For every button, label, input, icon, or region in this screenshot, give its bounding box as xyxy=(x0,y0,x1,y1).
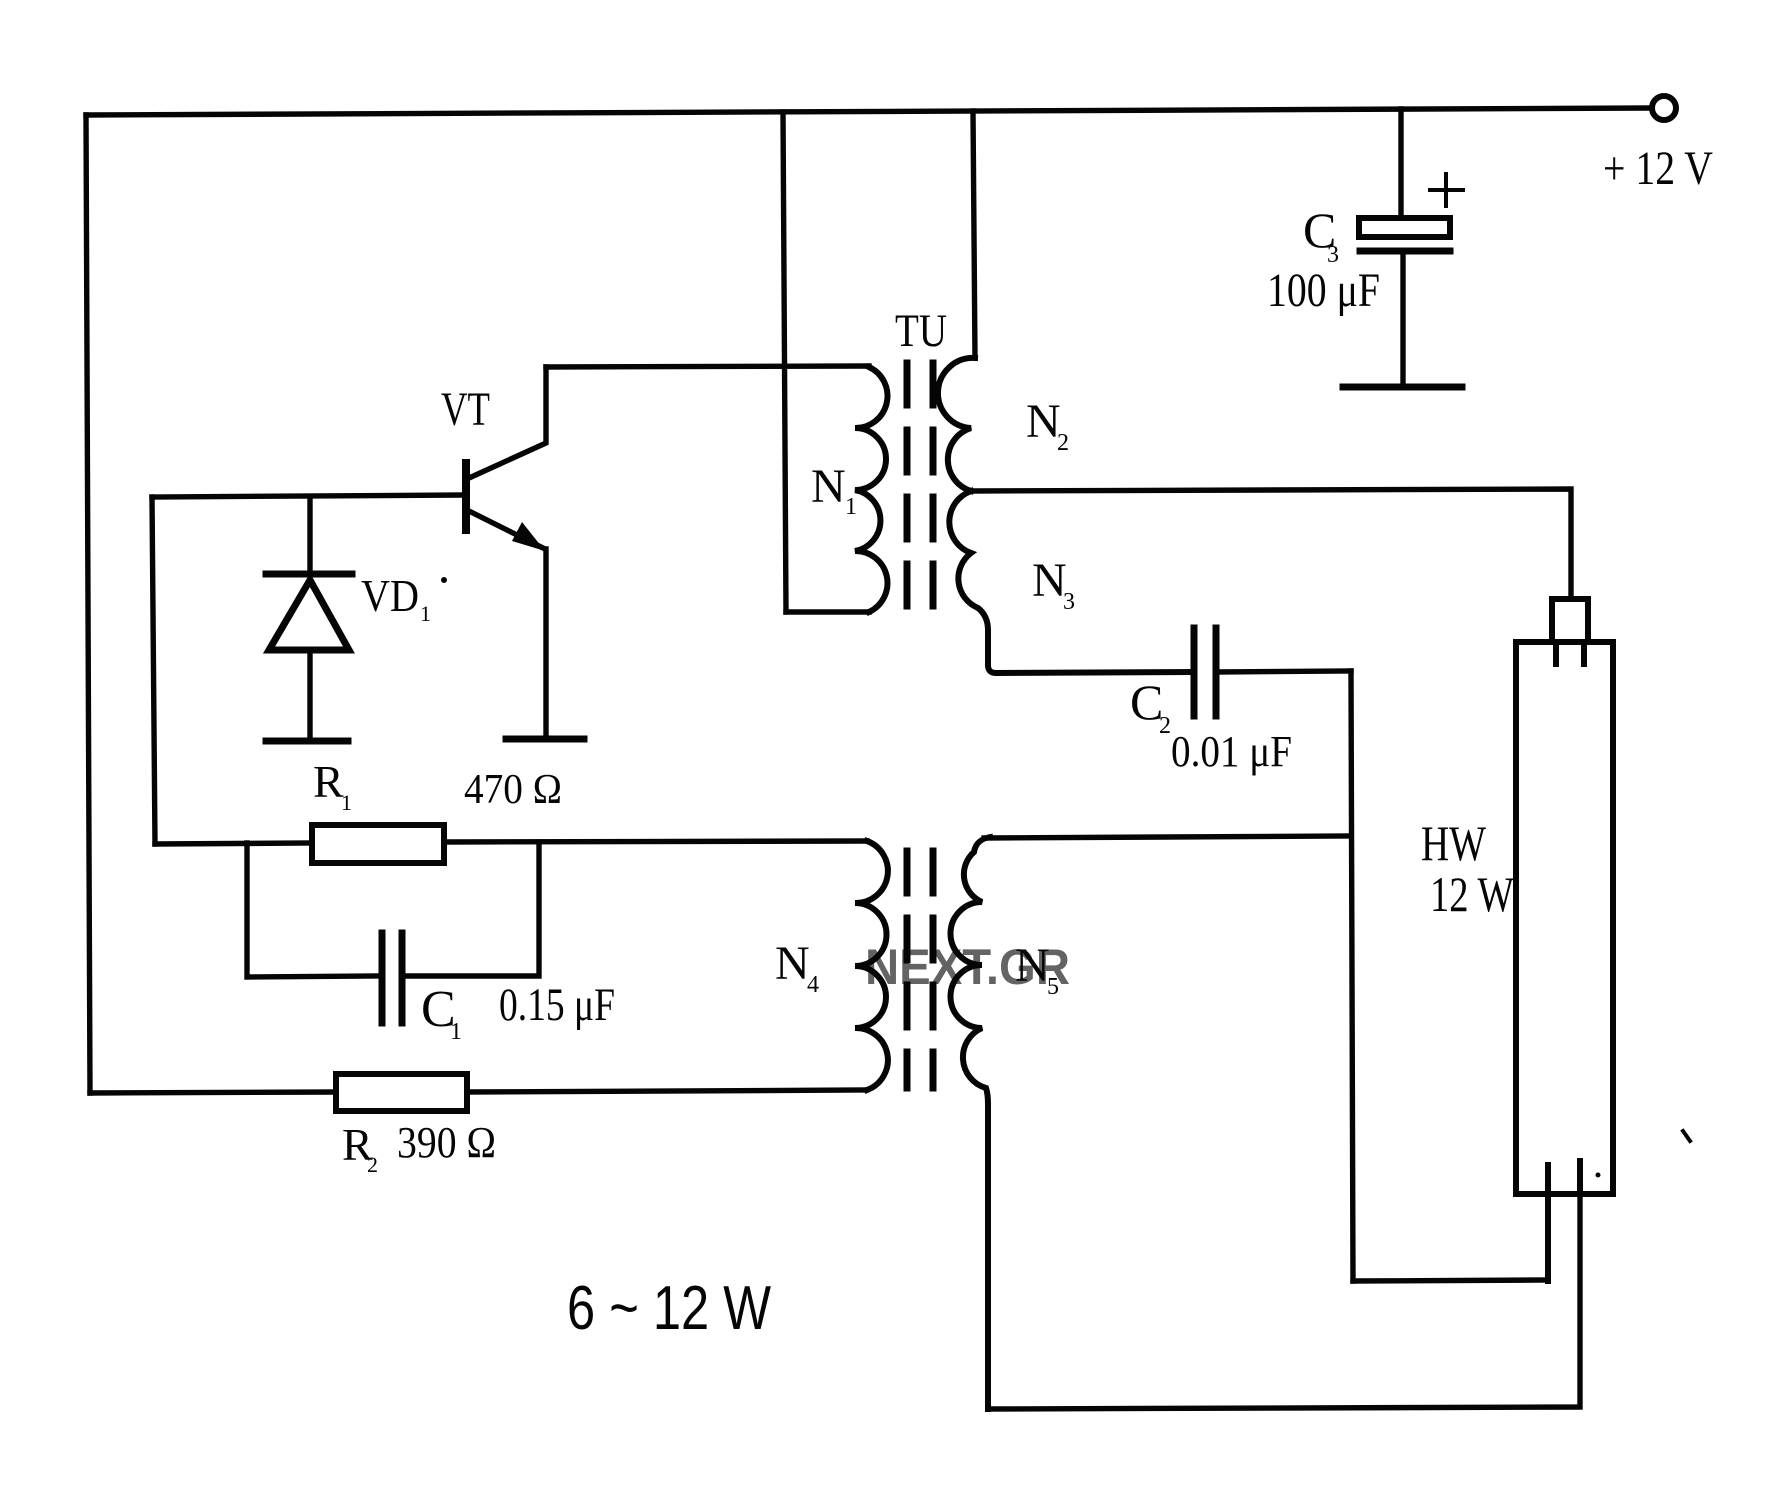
capacitor C1 branch left drop xyxy=(247,843,378,977)
speck marks xyxy=(1683,1131,1690,1141)
winding N5 xyxy=(951,837,990,1409)
svg-text:2: 2 xyxy=(1159,713,1171,739)
lamp top pin block xyxy=(1552,599,1588,642)
wire N1 bottom xyxy=(786,609,869,614)
capacitor C3 xyxy=(1359,218,1450,386)
svg-text:VD: VD xyxy=(361,570,419,621)
svg-text:470 Ω: 470 Ω xyxy=(464,767,562,813)
svg-text:N: N xyxy=(1032,554,1067,607)
resistor R2 xyxy=(336,1074,467,1111)
svg-text:0.01 μF: 0.01 μF xyxy=(1171,727,1292,776)
capacitor C3 lead from rail xyxy=(1398,109,1403,218)
wire right column x1351 xyxy=(1351,671,1353,1281)
svg-text:2: 2 xyxy=(1057,430,1069,456)
wire rail drop x973 to N2 top xyxy=(973,111,975,358)
diode bottom bar xyxy=(266,738,348,745)
svg-text:R: R xyxy=(313,756,344,807)
transistor VT xyxy=(466,367,546,737)
winding N3 xyxy=(949,491,1194,673)
winding N1 xyxy=(855,367,887,612)
svg-text:0.15 μF: 0.15 μF xyxy=(499,979,615,1031)
svg-text:VT: VT xyxy=(441,383,490,436)
wire N2/N3 tap to lamp top xyxy=(971,489,1571,599)
svg-text:4: 4 xyxy=(807,972,819,998)
diode VD1 xyxy=(266,497,352,741)
svg-text:100 μF: 100 μF xyxy=(1267,264,1380,317)
C3 polarity + xyxy=(1430,174,1463,206)
svg-text:3: 3 xyxy=(1063,589,1075,615)
ground emitter bar xyxy=(506,736,584,743)
svg-text:12 W: 12 W xyxy=(1430,866,1515,922)
wire base xyxy=(152,495,463,497)
resistor R1 xyxy=(312,825,444,863)
wire bottom-left to R2 xyxy=(90,1092,336,1093)
lamp top pins xyxy=(1556,642,1584,664)
wire R2 to N4 bottom xyxy=(467,1090,866,1092)
svg-text:1: 1 xyxy=(845,494,857,520)
svg-text:N: N xyxy=(1026,395,1061,448)
wire top +12V rail xyxy=(86,108,1650,115)
wire rail drop x783 to N1 bottom xyxy=(783,112,786,612)
lamp HW tube xyxy=(1516,642,1613,1194)
svg-text:N: N xyxy=(811,460,846,513)
svg-text:TU: TU xyxy=(895,305,947,357)
terminal +12V xyxy=(1652,96,1676,120)
wire base drop x152 xyxy=(152,497,155,844)
transformer TU upper core xyxy=(907,363,933,611)
winding N2 xyxy=(938,358,975,491)
svg-text:HW: HW xyxy=(1421,815,1487,871)
wire C2 right to lamp column xyxy=(1216,671,1351,672)
wire lamp bottom-right return xyxy=(988,1161,1580,1409)
wire lamp bottom-left return xyxy=(1353,1280,1548,1281)
svg-text:N: N xyxy=(775,937,810,990)
svg-text:6 ~ 12 W: 6 ~ 12 W xyxy=(567,1274,771,1343)
wire to R1 xyxy=(155,843,312,844)
svg-text:1: 1 xyxy=(341,790,352,815)
winding N4 xyxy=(855,841,888,1090)
svg-text:NEXT.GR: NEXT.GR xyxy=(865,939,1070,995)
lamp bottom pins xyxy=(1548,1161,1580,1281)
svg-text:2: 2 xyxy=(367,1152,378,1177)
wire R1 to N4 top xyxy=(444,841,867,842)
transistor VT collector wire xyxy=(546,366,869,367)
svg-text:+ 12 V: + 12 V xyxy=(1603,142,1713,195)
capacitor C1 right wire up xyxy=(402,842,539,976)
svg-text:1: 1 xyxy=(450,1019,462,1045)
wire N5 top xyxy=(984,836,1351,838)
svg-text:390 Ω: 390 Ω xyxy=(397,1118,496,1167)
svg-text:1: 1 xyxy=(420,601,431,626)
capacitor C2 xyxy=(1194,628,1216,716)
wire left outer vertical xyxy=(86,115,90,1093)
ground C3 bar xyxy=(1343,384,1462,391)
transformer TU lower core xyxy=(907,851,933,1088)
capacitor C1 xyxy=(382,933,402,1023)
